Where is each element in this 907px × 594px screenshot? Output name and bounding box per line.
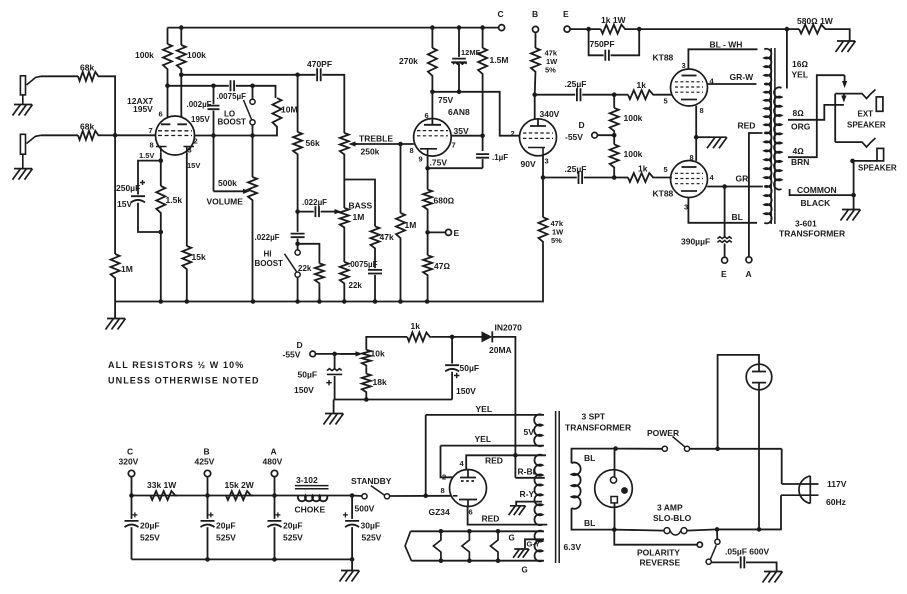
wire feedback line [627, 28, 799, 30]
capacitor 50uF (bias) [327, 369, 342, 375]
svg-text:BRN: BRN [791, 157, 809, 167]
wire 750PF to fb right [611, 29, 640, 55]
wire rail to 100k-L [167, 28, 169, 44]
power transformer primary [572, 463, 581, 509]
wire primary top BL [572, 449, 616, 464]
svg-text:525V: 525V [362, 533, 382, 543]
wire KT88u plate BL-WH [688, 49, 757, 69]
wire plate1 line left [168, 85, 229, 87]
junction grid .002 [211, 133, 216, 138]
wire 15k to rail [186, 271, 188, 302]
svg-text:117V: 117V [827, 479, 847, 489]
svg-text:SLO-BLO: SLO-BLO [653, 513, 692, 523]
input jack J1 [20, 76, 25, 95]
svg-text:8: 8 [410, 146, 414, 155]
junction rail 270k [430, 25, 435, 30]
svg-text:.05µF 600V: .05µF 600V [725, 547, 769, 557]
jack EXT SPEAKER bushing [876, 97, 883, 111]
svg-text:1k 1W: 1k 1W [601, 15, 627, 25]
wire receptacle bottom pin [614, 503, 616, 530]
svg-text:.022µF: .022µF [302, 198, 327, 207]
wire GR to transformer [725, 186, 763, 188]
heater chevron 4 [491, 531, 499, 560]
svg-text:50µF: 50µF [298, 370, 318, 380]
wire B to 47k-1W [534, 32, 536, 48]
capacitor 30uF 525V [345, 521, 359, 527]
junction gnd rail 30uF [350, 557, 355, 562]
AC plug [799, 476, 810, 504]
resistor 1k (bias) [407, 332, 432, 341]
arrow treble wiper [356, 143, 358, 145]
junction 1M-mid tap [398, 142, 403, 147]
svg-text:2: 2 [194, 137, 198, 146]
wire cathode to ground [696, 136, 710, 138]
junction 90V node [541, 175, 546, 180]
svg-text:1.5V: 1.5V [139, 151, 154, 160]
svg-text:8Ω: 8Ω [793, 108, 805, 118]
svg-text:15V: 15V [187, 161, 200, 170]
junction hiboost/22k [295, 242, 300, 247]
plus sign 50uF filter [454, 373, 459, 378]
junction rail 22k-2 [342, 299, 347, 304]
resistor 1k 1W (feedback) [601, 25, 627, 34]
svg-text:5: 5 [664, 165, 668, 174]
svg-text:75V: 75V [438, 95, 453, 105]
resistor 47k 1W (cathode) [539, 217, 548, 244]
wire primary bottom BL [572, 508, 615, 529]
wire 30uF bottom [351, 527, 353, 559]
wire to polarity switch [716, 529, 718, 539]
tube KT88 upper V3 [671, 69, 708, 106]
wire speaker sleeve [854, 161, 877, 195]
svg-text:G: G [522, 566, 528, 575]
svg-text:TREBLE: TREBLE [359, 134, 393, 144]
resistor 100k (plate 2) [177, 45, 186, 71]
wire .1uF to cathode line [482, 159, 484, 168]
svg-text:8: 8 [690, 153, 694, 162]
switch POLARITY contact B [706, 559, 711, 564]
svg-text:RED: RED [482, 514, 500, 524]
svg-text:B: B [532, 9, 538, 19]
junction 50uF-1 top [332, 352, 337, 357]
svg-text:3-102: 3-102 [296, 475, 318, 485]
wire rail to 270k [431, 28, 433, 48]
wire to standby [352, 495, 362, 498]
junction 35V node [480, 133, 485, 138]
svg-text:E: E [454, 228, 460, 238]
choke 3-102 core [295, 486, 329, 489]
wire B+ top rail [168, 27, 499, 29]
svg-text:SPEAKER: SPEAKER [847, 121, 886, 130]
wire .002 cap bottom [213, 111, 215, 136]
junction rail volume [251, 299, 256, 304]
svg-text:3-601: 3-601 [795, 219, 817, 229]
tube GZ34 [450, 470, 487, 507]
svg-text:525V: 525V [216, 533, 236, 543]
wire pin9 cathode [427, 156, 429, 190]
svg-text:18k: 18k [373, 377, 387, 387]
wire RED centre tap [749, 133, 763, 257]
wire 10k to 18k [365, 367, 367, 374]
switch POWER arm [673, 437, 685, 447]
tube 6AN8 V2 [414, 119, 452, 157]
svg-text:15k 2W: 15k 2W [225, 480, 255, 490]
wire 56k bottom [297, 156, 299, 212]
switch LO BOOST arm [244, 100, 252, 120]
junction rail cathode-1 [159, 299, 164, 304]
svg-text:5%: 5% [551, 236, 562, 245]
svg-text:6.3V: 6.3V [564, 542, 582, 552]
heater chevron 1 [405, 531, 411, 560]
svg-text:POWER: POWER [647, 428, 679, 438]
wire .022-2 bottom [297, 239, 299, 250]
svg-text:9: 9 [419, 155, 423, 164]
wire 340V to .25uF [535, 94, 576, 96]
terminal B [533, 26, 539, 32]
junction 56k/.022 [295, 209, 300, 214]
svg-text:20µF: 20µF [216, 521, 236, 531]
svg-text:RED: RED [738, 121, 756, 131]
arrow 8ohm contact [843, 94, 845, 96]
svg-text:30µF: 30µF [361, 521, 381, 531]
terminal C [499, 25, 505, 31]
wire treble to bass [343, 156, 345, 208]
junction C rail [129, 493, 134, 498]
terminal E (top) [564, 26, 570, 32]
junction GR node [722, 184, 727, 189]
junction diode node [450, 335, 455, 340]
svg-text:150V: 150V [456, 386, 476, 396]
wire .25uF lower to node [584, 177, 614, 179]
arrow volume wiper [214, 190, 244, 192]
svg-text:YEL: YEL [475, 434, 492, 444]
wire hiboost to rail [297, 277, 299, 301]
potentiometer 500k VOLUME [248, 177, 257, 202]
svg-text:ORG: ORG [791, 122, 811, 132]
junction B rail [205, 493, 210, 498]
svg-text:2: 2 [511, 129, 515, 138]
capacitor 20uF 525V (C) [125, 521, 139, 527]
wire polarity branch [614, 530, 697, 545]
svg-text:320V: 320V [119, 457, 139, 467]
capacitor .25uF (lower) [579, 171, 583, 184]
arrow 4ohm contact [844, 75, 846, 81]
svg-text:100k: 100k [624, 149, 643, 159]
svg-text:6: 6 [425, 111, 429, 120]
resistor 10M [273, 98, 282, 129]
wire 16ohm tap [786, 29, 788, 88]
capacitor 470PF [317, 68, 321, 81]
svg-text:6AN8: 6AN8 [448, 107, 470, 117]
wire 22k-1 to rail [318, 285, 320, 302]
svg-text:10k: 10k [371, 349, 385, 359]
wire C to rail [131, 477, 133, 496]
junction rail 100k-R [179, 25, 184, 30]
svg-text:RED: RED [485, 456, 503, 466]
switch HI BOOST contact B [295, 272, 300, 277]
capacitor 250uF [131, 196, 145, 202]
svg-text:.022µF: .022µF [255, 233, 280, 242]
output transformer primary (top) [764, 49, 771, 85]
svg-text:195V: 195V [133, 104, 153, 114]
ground (jack J1) [13, 105, 33, 116]
wire grid node to pin7 [115, 134, 156, 136]
wire fuse to junction [687, 529, 717, 530]
junction rail 22k-1 [317, 299, 322, 304]
resistor 68k (input 2) [78, 131, 100, 140]
wire 47k to .0075-2 [374, 250, 376, 268]
wire 1.5M down to 35V node [482, 76, 484, 136]
arrow bass wiper [321, 211, 335, 213]
svg-text:VOLUME: VOLUME [207, 197, 244, 207]
diode IN2070 [482, 331, 493, 342]
svg-text:8: 8 [441, 486, 445, 495]
svg-text:GR: GR [736, 174, 749, 184]
wire 100k B to grid node B [613, 169, 615, 177]
svg-text:7: 7 [149, 126, 153, 135]
junction BL/polarity [612, 527, 617, 532]
svg-text:R-Y: R-Y [520, 489, 535, 499]
wire volume top [252, 136, 254, 178]
wire 1M-mid [400, 144, 402, 213]
svg-text:5: 5 [664, 97, 668, 106]
wire 470PF to treble [322, 75, 344, 133]
resistor 18k [362, 374, 371, 394]
svg-text:470PF: 470PF [307, 59, 332, 69]
junction rail 47ohm [425, 299, 430, 304]
svg-text:12MF: 12MF [461, 48, 481, 57]
wire 270k to 75V [431, 78, 433, 92]
tube KT88 lower V4 [671, 161, 708, 198]
resistor 270k [428, 48, 437, 78]
svg-text:E: E [721, 269, 727, 279]
svg-text:UNLESS OTHERWISE NOTED: UNLESS OTHERWISE NOTED [108, 376, 260, 386]
svg-text:D: D [579, 120, 585, 130]
wire D to 50uF node [316, 353, 357, 355]
heater chevron 2 [433, 531, 441, 560]
svg-text:-55V: -55V [565, 132, 583, 142]
resistor 100k (lower) [610, 144, 619, 169]
svg-text:TRANSFORMER: TRANSFORMER [779, 229, 845, 239]
wire 390pF to E [724, 244, 726, 258]
resistor 100k (upper) [610, 108, 619, 133]
wire capacitor 20uF 525V (B) bottom [207, 527, 209, 559]
wire YEL top to standby [425, 415, 427, 496]
capacitor .05uF 600V [741, 556, 745, 568]
wire splitter cathode [542, 155, 544, 217]
junction heater bottom 2 [439, 558, 444, 563]
svg-text:150V: 150V [294, 385, 314, 395]
junction speaker sleeve [850, 159, 855, 164]
svg-text:47Ω: 47Ω [434, 261, 450, 271]
wire 1M-mid to rail [400, 240, 402, 302]
wire polarity to cap [711, 561, 739, 563]
junction BL/receptacle top [613, 446, 618, 451]
resistor 580ohm 1W [799, 25, 827, 34]
svg-text:BL: BL [584, 453, 595, 463]
resistor 1M (input) [111, 254, 120, 280]
wire 50uF-2 lead [451, 337, 453, 364]
wire common to ground [853, 195, 855, 209]
ground (.05uF) [763, 572, 783, 583]
wire supply rail [132, 495, 353, 497]
wire capacitor 20uF 525V (C) [131, 496, 133, 519]
junction plate2 line [179, 73, 184, 78]
resistor 68k (input 1) [78, 72, 100, 81]
ground (KT88 cathodes) [707, 137, 727, 148]
svg-text:15k: 15k [192, 252, 206, 262]
junction .002 tap [211, 84, 216, 89]
svg-text:195V: 195V [191, 115, 210, 124]
svg-text:750PF: 750PF [590, 39, 615, 49]
junction plate1 line [165, 84, 170, 89]
wire 250uF bottom branch [138, 203, 161, 232]
svg-text:BL - WH: BL - WH [710, 40, 743, 50]
wire rail to ground stem [114, 302, 116, 319]
terminal C supply [128, 470, 134, 476]
junction rail 0075 [373, 299, 378, 304]
svg-text:270k: 270k [399, 56, 418, 66]
svg-text:A: A [271, 447, 277, 457]
jack EXT SPEAKER spring [835, 90, 875, 99]
svg-text:YEL: YEL [476, 404, 493, 414]
junction gnd rail B [205, 557, 210, 562]
wire .0075-2 to rail [374, 275, 376, 302]
terminal A (output) [746, 257, 752, 263]
wire 1k A to pin5 [655, 94, 672, 96]
resistor 1M (mid) [396, 213, 405, 240]
wire 50uF-2 bottom [451, 372, 453, 400]
wire .25uF to grid node A [582, 94, 614, 96]
tube 6AN8 splitter V2b [520, 119, 557, 156]
svg-text:1k: 1k [637, 80, 647, 90]
svg-text:BOOST: BOOST [218, 118, 247, 127]
wire 1k to diode node [432, 336, 452, 338]
wire grid bus down to 1M [114, 135, 116, 254]
wire plug top [781, 449, 783, 484]
capacitor 750PF [605, 50, 609, 61]
svg-text:BOOST: BOOST [255, 259, 284, 268]
ground (jack J2) [13, 169, 33, 180]
wire junction to lamp node [717, 528, 781, 530]
svg-text:.002µF: .002µF [187, 100, 212, 109]
switch LO BOOST contact A [250, 99, 255, 104]
svg-text:20µF: 20µF [283, 521, 303, 531]
capacitor .0075uF (bass) [368, 270, 382, 274]
svg-text:8: 8 [150, 141, 154, 150]
capacitor .0075uF (lo boost) [231, 80, 235, 91]
ground (bias) [324, 414, 344, 425]
plus sign 250uF [140, 180, 145, 185]
power transformer core [556, 411, 560, 563]
junction bias/RED [513, 453, 518, 458]
resistor 1k (KT88 upper grid) [628, 90, 655, 99]
wire 1k B to pin5 lower [655, 177, 672, 179]
svg-text:100k: 100k [187, 50, 206, 60]
wire to 1k A [614, 94, 628, 96]
switch STANDBY contact A [362, 494, 367, 499]
svg-text:STANDBY: STANDBY [351, 476, 392, 486]
svg-text:22k: 22k [298, 264, 312, 273]
svg-text:3: 3 [188, 146, 192, 155]
wire GZ34 pin6 RED [468, 506, 548, 524]
capacitor .1uF [476, 154, 489, 158]
wire capacitor 20uF 525V (A) bottom [274, 527, 276, 559]
wire YEL top [426, 414, 544, 416]
resistor 100k (plate 1) [163, 44, 172, 71]
svg-text:35V: 35V [454, 126, 469, 136]
wire 56k top [297, 75, 299, 132]
wire 100k A to -55V node [613, 133, 615, 145]
wire 390pF branch [724, 187, 726, 238]
terminal E (cathode) [446, 229, 452, 235]
junction cathode bottom [159, 230, 164, 235]
wire E node stub [428, 231, 446, 233]
svg-text:68k: 68k [80, 63, 94, 73]
wire plate1 line right [236, 86, 276, 98]
svg-text:525V: 525V [140, 533, 160, 543]
wire heater bottom rail [411, 560, 544, 562]
junction grid node A [612, 92, 617, 97]
svg-text:.0075µF: .0075µF [348, 260, 378, 269]
wire pin7 to 35V node [451, 135, 482, 137]
wire E to fb node [570, 28, 601, 30]
wire G-Y tap [525, 539, 544, 548]
wire 8ohm tap [788, 105, 844, 120]
terminal polarity line [697, 542, 702, 547]
svg-text:390µµF: 390µµF [681, 237, 710, 247]
svg-text:.25µF: .25µF [565, 79, 587, 89]
svg-text:BL: BL [584, 518, 595, 528]
wire input2 to 68k [41, 134, 78, 136]
wire D to node [597, 134, 614, 136]
switch LO BOOST contact B [250, 120, 255, 125]
svg-text:20µF: 20µF [140, 521, 160, 531]
junction fb left [586, 27, 591, 32]
switch HI BOOST arm [285, 254, 297, 272]
capacitor 50uF (filter) [445, 365, 459, 371]
svg-text:90V: 90V [521, 159, 536, 169]
junction fb 16ohm [785, 27, 790, 32]
wire 680 to E node [427, 211, 429, 255]
svg-text:GZ34: GZ34 [429, 507, 451, 517]
wire capacitor 20uF 525V (A) [274, 496, 276, 519]
input jack J2 [20, 134, 25, 154]
wire 4ohm tap [788, 75, 845, 157]
wire volume wiper [213, 136, 215, 192]
junction heater bottom 3 [467, 558, 472, 563]
svg-text:BLACK: BLACK [801, 198, 832, 208]
switch HI BOOST contact A [295, 250, 300, 255]
terminal D -55V [592, 132, 598, 138]
junction lamp bottom [757, 527, 762, 532]
output transformer secondary [774, 87, 781, 189]
junction rail 1M-mid [398, 299, 403, 304]
capacitor .022uF (hi boost) [291, 234, 305, 238]
resistor 47k 1W (B) [531, 48, 540, 74]
jack SPEAKER spring [835, 138, 875, 147]
wire cap to ground [746, 562, 777, 571]
svg-text:G-Y: G-Y [527, 540, 540, 549]
jack SPEAKER bushing [877, 148, 884, 161]
wire rail to 1.5M [482, 28, 484, 48]
svg-text:GR-W: GR-W [730, 72, 755, 82]
junction rail 12MF [457, 25, 462, 30]
svg-text:15V: 15V [117, 199, 132, 209]
svg-text:50µF: 50µF [460, 363, 480, 373]
junction 56k tap [295, 73, 300, 78]
svg-text:22k: 22k [349, 281, 363, 290]
